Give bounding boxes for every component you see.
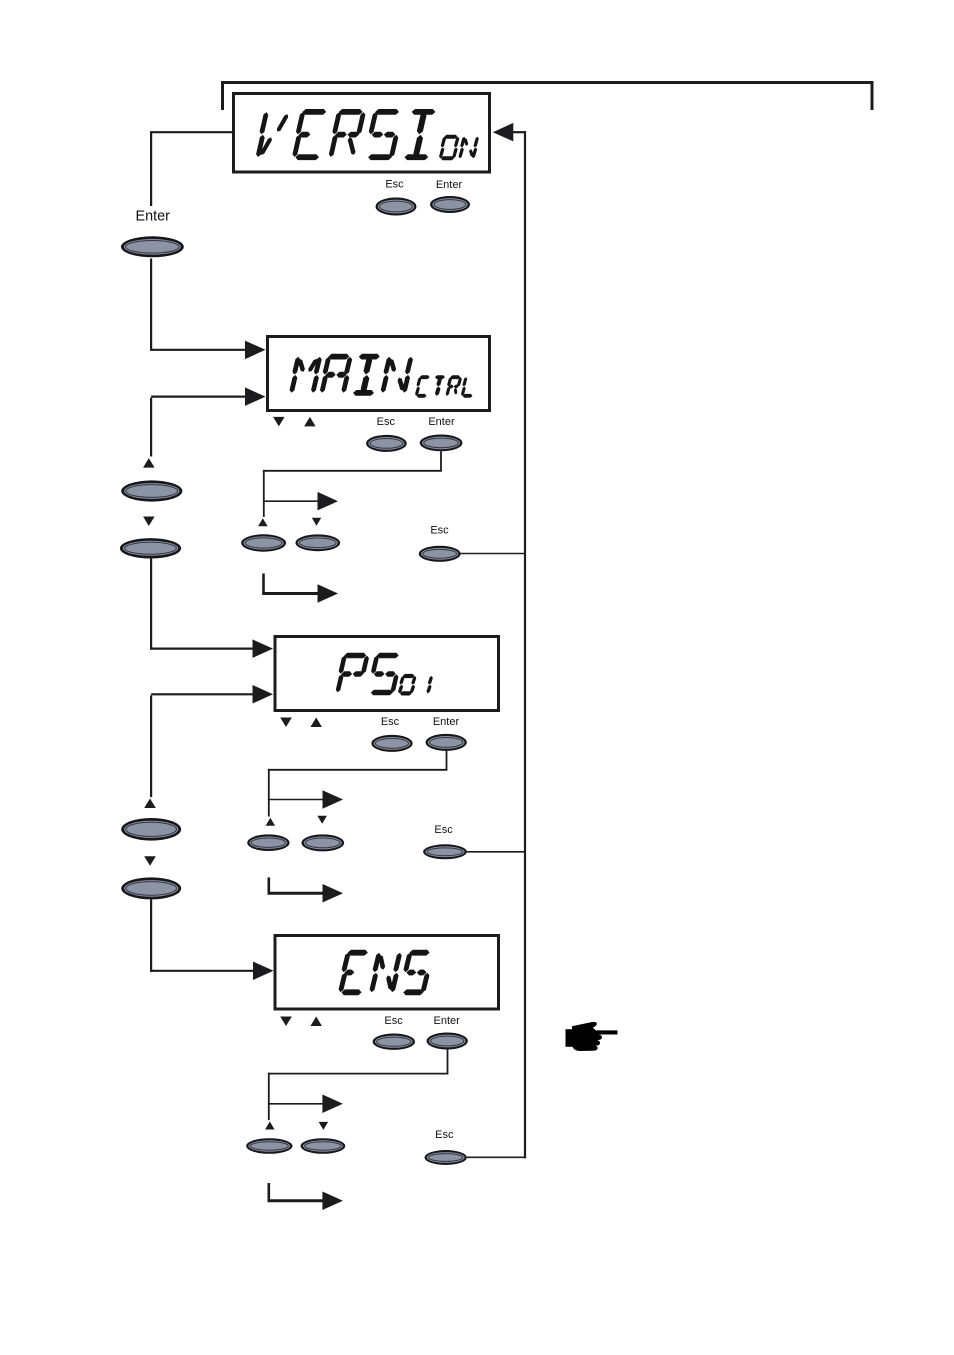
button Enter MAIN xyxy=(420,435,463,452)
svg-text:Esc: Esc xyxy=(435,1129,454,1141)
wire Enter ENS down xyxy=(268,1049,449,1120)
label Esc MAIN xyxy=(377,416,396,428)
svg-text:Esc: Esc xyxy=(381,716,400,728)
button Esc VERSION xyxy=(376,198,417,216)
svg-text:Esc: Esc xyxy=(434,824,453,836)
button up left MAIN xyxy=(121,480,182,501)
segment text ON xyxy=(439,135,478,160)
arrow into PS 1 xyxy=(253,639,274,658)
wire branch PS xyxy=(268,790,343,809)
tri down left PS xyxy=(144,856,156,866)
tri up left MAIN xyxy=(143,458,155,468)
button up ENS xyxy=(246,1138,292,1154)
wire Esc MAIN to loop xyxy=(461,553,527,555)
display box PS xyxy=(275,637,499,711)
button Enter left xyxy=(121,236,184,257)
button Esc ENS right xyxy=(425,1150,467,1165)
button Esc MAIN right xyxy=(419,546,461,562)
button down ENS xyxy=(301,1138,346,1154)
wire Enter PS down xyxy=(268,751,448,817)
wire branch MAIN xyxy=(263,492,338,511)
tri down below PS xyxy=(280,718,292,728)
tri down small PS xyxy=(317,816,327,824)
svg-text:Esc: Esc xyxy=(377,416,396,428)
wire Enter to MAIN xyxy=(151,259,246,351)
svg-text:Enter: Enter xyxy=(436,179,463,191)
wire PS scroll xyxy=(151,694,253,797)
svg-text:Esc: Esc xyxy=(385,179,404,191)
wire loop right xyxy=(524,131,526,1158)
display box MAIN xyxy=(268,337,490,411)
button up PS xyxy=(247,834,289,851)
button Enter ENS xyxy=(427,1033,468,1050)
wire left to PS xyxy=(151,559,253,650)
label Enter VERSION xyxy=(436,179,463,191)
tri up small ENS xyxy=(265,1122,275,1130)
label Esc MAIN right xyxy=(430,525,449,537)
wire branch ENS xyxy=(268,1095,343,1114)
tri up below PS xyxy=(310,718,322,728)
segment text MAIN xyxy=(290,354,413,396)
arrow into VERSION xyxy=(493,123,526,141)
svg-text:Enter: Enter xyxy=(428,416,455,428)
button up left PS xyxy=(121,818,181,841)
arrow into MAIN 2 xyxy=(245,387,266,406)
label Enter ENS xyxy=(434,1015,461,1027)
label Enter left xyxy=(135,209,170,225)
label Esc ENS xyxy=(384,1015,403,1027)
wire Enter MAIN down xyxy=(263,451,442,517)
button Esc PS right xyxy=(423,844,467,859)
tri down small ENS xyxy=(319,1122,329,1130)
button Esc PS xyxy=(371,735,412,752)
wire top bracket xyxy=(221,81,874,110)
label Enter MAIN xyxy=(428,416,455,428)
label Esc ENS right xyxy=(435,1129,454,1141)
tri up below MAIN xyxy=(304,417,316,427)
arrow into PS 2 xyxy=(253,685,274,704)
svg-text:Enter: Enter xyxy=(433,716,460,728)
tri down below ENS xyxy=(280,1017,292,1027)
button down MAIN xyxy=(295,534,340,551)
tri up small MAIN xyxy=(258,518,268,526)
button down PS xyxy=(301,834,344,851)
svg-text:Esc: Esc xyxy=(384,1015,403,1027)
segment text CTRL xyxy=(415,376,472,398)
segment text PS xyxy=(336,653,398,695)
svg-text:Esc: Esc xyxy=(430,525,449,537)
label Esc VERSION xyxy=(385,179,404,191)
label Enter PS xyxy=(433,716,460,728)
wire L-arrow ENS xyxy=(268,1183,343,1210)
button Esc MAIN xyxy=(366,435,407,452)
button down left MAIN xyxy=(120,538,181,558)
tri up below ENS xyxy=(310,1017,322,1027)
label Esc PS right xyxy=(434,824,453,836)
button up MAIN xyxy=(241,534,286,551)
wire Esc ENS to loop xyxy=(467,1156,526,1158)
wire L-arrow PS xyxy=(268,877,344,902)
tri up left PS xyxy=(144,799,156,809)
button Esc ENS xyxy=(373,1034,415,1050)
button Enter PS xyxy=(426,734,467,751)
tri down left MAIN xyxy=(143,517,155,527)
segment text ENS xyxy=(339,950,429,995)
wire Esc PS to loop xyxy=(467,851,527,853)
wire VERSION to Enter xyxy=(151,131,232,206)
segment text VERSI xyxy=(256,109,435,160)
arrow into ENS xyxy=(253,962,274,981)
tri up small PS xyxy=(266,818,276,826)
tri down below MAIN xyxy=(273,417,285,427)
display box VERSION xyxy=(234,94,490,173)
hand pointer icon xyxy=(566,1022,618,1051)
button down left PS xyxy=(121,877,181,899)
wire left to ENS xyxy=(151,899,253,972)
svg-text:Enter: Enter xyxy=(434,1015,461,1027)
tri down small MAIN xyxy=(312,518,321,526)
arrow into MAIN 1 xyxy=(245,341,266,360)
display box ENS xyxy=(275,936,499,1010)
label Esc PS xyxy=(381,716,400,728)
button Enter VERSION xyxy=(430,196,470,213)
segment text 01 xyxy=(398,674,432,695)
svg-text:Enter: Enter xyxy=(135,209,170,225)
wire L-arrow MAIN xyxy=(262,574,338,603)
wire MAIN scroll xyxy=(151,397,246,457)
